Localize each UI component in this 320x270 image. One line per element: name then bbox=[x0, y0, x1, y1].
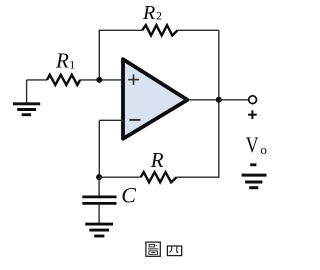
label Vo bbox=[246, 132, 267, 157]
svg-text:2: 2 bbox=[156, 9, 162, 23]
caption 圖 bbox=[146, 242, 160, 256]
ground bottom left bbox=[85, 224, 113, 236]
label R1 bbox=[55, 48, 75, 72]
wire R left lead bbox=[99, 176, 141, 178]
svg-text:C: C bbox=[121, 182, 136, 207]
output minus polarity bbox=[250, 163, 256, 166]
svg-text:1: 1 bbox=[69, 57, 75, 71]
node B bottom junction bbox=[96, 174, 102, 180]
wire top rail right segment bbox=[178, 29, 219, 31]
op-amp plus input symbol bbox=[128, 74, 139, 85]
label R2 bbox=[142, 2, 162, 24]
wire R1 right lead to plus input bbox=[80, 79, 124, 81]
svg-text:R: R bbox=[55, 48, 69, 72]
resistor R2 bbox=[142, 25, 177, 35]
terminal output circle bbox=[249, 96, 257, 104]
resistor R1 bbox=[47, 75, 80, 85]
svg-text:R: R bbox=[142, 2, 155, 24]
op-amp minus input symbol bbox=[129, 119, 140, 121]
svg-text:R: R bbox=[150, 148, 164, 172]
wire minus input horizontal bbox=[99, 119, 124, 121]
ground stem left bbox=[26, 80, 28, 103]
wire right rail bbox=[218, 30, 220, 178]
wire minus branch vertical bbox=[98, 120, 100, 177]
op-amp U1 bbox=[123, 59, 187, 139]
wire left vertical from top rail to plus node bbox=[98, 30, 100, 80]
wire op-amp output bbox=[187, 99, 218, 101]
node C output junction bbox=[216, 97, 222, 103]
wire output to terminal bbox=[219, 99, 249, 101]
ground left bbox=[13, 104, 40, 115]
wire capacitor to ground bbox=[98, 203, 100, 223]
svg-text:o: o bbox=[260, 142, 267, 157]
capacitor C bbox=[82, 197, 116, 204]
caption 四 bbox=[167, 246, 181, 256]
wire R1 left lead bbox=[27, 79, 47, 81]
wire R right lead bbox=[177, 176, 219, 178]
resistor R bbox=[141, 172, 177, 182]
wire node to capacitor bbox=[98, 177, 100, 196]
node A plus-input junction bbox=[96, 77, 102, 83]
svg-text:V: V bbox=[246, 132, 259, 157]
ground right bbox=[242, 175, 267, 188]
wire top rail left segment bbox=[99, 29, 142, 31]
output plus polarity bbox=[248, 110, 257, 119]
